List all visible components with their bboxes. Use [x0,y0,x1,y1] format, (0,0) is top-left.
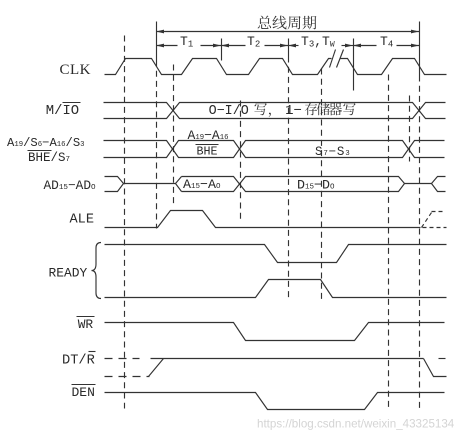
svg-text:M/IO: M/IO [46,103,79,119]
svg-text:1−: 1− [285,103,302,119]
svg-text:AD15−ADO: AD15−ADO [44,178,97,193]
svg-text:CLK: CLK [60,62,92,78]
svg-text:T3,TW: T3,TW [301,34,335,50]
svg-text:https://blog.csdn.net/weixin_4: https://blog.csdn.net/weixin_43325134 [257,418,455,431]
svg-text:BHE: BHE [197,145,218,159]
svg-text:WR: WR [78,317,94,332]
svg-text:A15−AO: A15−AO [183,177,221,192]
svg-text:O−I/O: O−I/O [209,104,249,119]
svg-text:S7−S3: S7−S3 [315,145,351,159]
svg-text:DEN: DEN [72,385,95,400]
svg-text:ALE: ALE [70,213,94,228]
svg-text:DT/R: DT/R [62,354,95,369]
svg-text:D15−DO: D15−DO [297,178,335,193]
svg-text:READY: READY [49,266,88,281]
svg-text:BHE/S7: BHE/S7 [28,151,70,165]
